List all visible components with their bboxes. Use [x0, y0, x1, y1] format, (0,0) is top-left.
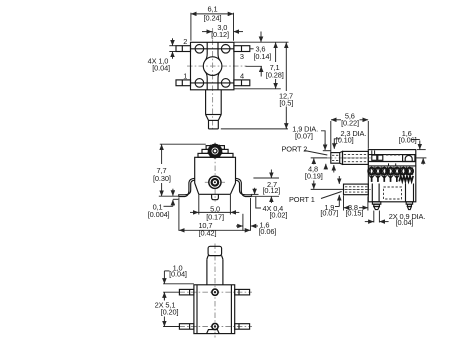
- svg-text:[0.17]: [0.17]: [206, 212, 224, 221]
- svg-text:[0.15]: [0.15]: [346, 209, 364, 218]
- svg-text:6,1: 6,1: [208, 4, 218, 13]
- svg-text:PORT 1: PORT 1: [289, 195, 315, 204]
- svg-text:[0.10]: [0.10]: [336, 135, 354, 144]
- svg-text:[0.06]: [0.06]: [259, 227, 277, 236]
- svg-text:[0.004]: [0.004]: [148, 210, 170, 219]
- svg-text:[0.02]: [0.02]: [270, 210, 288, 219]
- svg-text:[0.22]: [0.22]: [341, 119, 359, 128]
- svg-text:[0.5]: [0.5]: [279, 98, 293, 107]
- svg-text:PORT 2: PORT 2: [282, 145, 308, 154]
- svg-text:[0.04]: [0.04]: [396, 218, 414, 227]
- svg-text:[0.24]: [0.24]: [204, 13, 222, 22]
- svg-text:3: 3: [240, 52, 244, 61]
- svg-text:[0.30]: [0.30]: [153, 174, 171, 183]
- svg-text:[0.12]: [0.12]: [263, 186, 281, 195]
- svg-text:[0.07]: [0.07]: [320, 209, 338, 218]
- svg-text:[0.19]: [0.19]: [305, 172, 323, 181]
- svg-text:[0.04]: [0.04]: [169, 270, 187, 279]
- svg-text:4: 4: [240, 71, 244, 80]
- svg-text:[0.07]: [0.07]: [295, 132, 313, 141]
- svg-text:[0.04]: [0.04]: [152, 64, 170, 73]
- svg-text:1: 1: [183, 71, 187, 80]
- svg-text:[0.06]: [0.06]: [399, 135, 417, 144]
- svg-text:[0.28]: [0.28]: [266, 70, 284, 79]
- svg-text:[0.12]: [0.12]: [211, 30, 229, 39]
- svg-text:[0.20]: [0.20]: [161, 308, 179, 317]
- svg-text:[0.42]: [0.42]: [199, 229, 217, 238]
- svg-text:2: 2: [183, 37, 187, 46]
- svg-text:[0.14]: [0.14]: [254, 52, 272, 61]
